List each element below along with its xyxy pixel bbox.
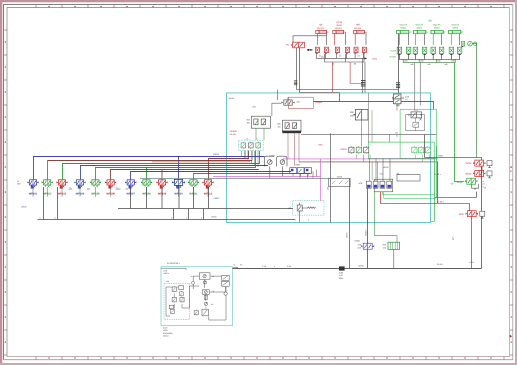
wire mid drop with connector [361,58,363,93]
frame valve group box [374,179,392,192]
svg-text:x: x [274,265,275,268]
valve V34 [241,142,246,149]
wire bus C green [63,151,260,180]
pilot assembly box [293,201,324,215]
valve V50 [366,181,371,188]
valve V40 [349,146,354,154]
wire green drops to valve box [414,63,416,111]
valve VR3 WP103 [56,180,67,187]
valve S6 [204,295,208,300]
svg-text:GB: GB [428,20,432,23]
svg-text:x 08: x 08 [339,274,343,277]
svg-text:8005: 8005 [339,277,343,280]
green outer box [400,109,436,158]
svg-text:MR: MR [356,24,360,27]
connector K3 [396,83,400,88]
valve V53 [387,181,392,188]
flow arrow [307,49,313,51]
valve V29 aux [461,41,464,47]
svg-text:W0rt: W0rt [459,213,464,216]
svg-text:x08 05: x08 05 [229,97,235,100]
valve RV1 [473,160,485,166]
valve VR8 WP108 [141,180,152,187]
wire V32 drop [361,120,363,147]
valve V39 [305,168,312,176]
svg-text:c: c [257,138,258,141]
svg-text:S p05: S p05 [390,50,396,53]
pump SP1 [199,273,210,279]
valve RV2 [473,170,485,176]
wire bus B maroon [48,159,253,161]
svg-text:W: W [17,180,19,183]
svg-text:V08: V08 [252,106,255,109]
svg-text:W0gb: W0gb [457,181,464,184]
valve S4 [180,296,184,302]
svg-text:0x80: 0x80 [339,272,343,275]
svg-text:00x0x000x: 00x0x000x [163,332,173,335]
wire cylinder drops green group [399,34,459,45]
wire cooler drop [393,249,395,268]
wire main tank line [233,267,482,269]
svg-text:W0fw: W0fw [466,162,472,165]
valve V52 [380,181,385,188]
valve V15 [354,47,358,54]
valve S11 [179,286,184,290]
svg-text:Wg1 05: Wg1 05 [399,23,407,26]
valve V22 [406,47,410,55]
valve V16 [362,47,366,54]
valve GV1 [465,178,477,184]
wire bus G blue [131,171,292,179]
svg-text:W052: W052 [416,26,422,29]
svg-text:x0805: x0805 [358,264,364,267]
border numerals [510,167,511,168]
svg-text:x0: x0 [191,275,193,278]
wire long mid bus [301,133,437,135]
wire green valve bus2 [403,59,455,62]
restrictor [420,118,422,120]
svg-text:W053: W053 [434,26,440,29]
valve S7 [194,309,198,315]
wire bus2 drop [332,62,334,92]
wire red to connector [350,62,362,84]
valve S9 [222,275,230,280]
svg-text:x0805: x0805 [383,166,389,169]
valve V33 spring [408,112,422,118]
spring coil [307,207,315,209]
svg-text:a: a [177,286,178,288]
cooler [388,242,400,249]
valve RV3 [466,211,478,217]
manifold bar [282,131,301,134]
valve V43 [412,146,417,154]
valve V51 [373,181,378,188]
valve V11 [315,47,319,54]
cylinder Z7 [449,30,463,33]
cylinder Z5 [414,30,428,33]
valve S13 [169,305,173,309]
cylinder Z2 [333,30,346,33]
wire MRV drops [357,155,371,162]
svg-text:W051: W051 [400,26,406,29]
svg-text:x00x0: x00x0 [163,334,169,337]
valve V41 [356,146,361,154]
valve V13 [335,47,339,54]
wire CV1 left link [272,103,282,116]
wire bus K pink [213,159,321,201]
valve S1 [172,286,176,292]
valve V42 [364,146,369,154]
svg-text:W 08 L: W 08 L [437,263,444,266]
cylinder Z4 [397,30,411,33]
valve VR1 WP101 [27,180,38,187]
svg-text:WP101: WP101 [29,193,38,196]
wire pilot drops to cluster [297,48,399,89]
pink pilot line upper [283,158,438,160]
pump P3 [468,41,473,46]
svg-text:MF: MF [319,24,323,27]
cylinder Z1 [316,30,329,33]
svg-text:x0805: x0805 [337,176,343,179]
valve VR2 WP102 [42,180,53,187]
wire RV3 drop [471,217,473,269]
valve S12 [224,292,227,295]
wire aux to right drop [472,44,476,158]
wire lower bus2 [118,187,293,208]
svg-text:Vfw: Vfw [286,44,290,47]
valve V27 [449,47,453,55]
svg-text:WP103: WP103 [58,193,67,196]
wire CB comb [241,151,258,168]
subschematic box [161,267,233,326]
pump P1 [268,160,273,165]
valve V14 [345,47,349,54]
pump SP3 [202,290,209,295]
svg-text:40/60: 40/60 [336,24,342,27]
wire bus H green [194,173,311,179]
wire green box drop [434,159,436,222]
connector K1 [361,81,366,86]
wire red group top manifold [293,36,326,42]
valve VR7 WP107 [125,180,136,187]
valve BLV blue [361,243,374,249]
frame aux box [397,175,420,181]
svg-text:x0800: x0800 [21,205,27,208]
valve VR11 WP111 [188,180,199,187]
valve V33b [413,122,419,127]
valve V26 [439,47,443,55]
valve V45 [425,146,430,154]
svg-text:x 0: x 0 [405,98,408,101]
wire bus I maroon [209,151,249,180]
valve V25 [431,47,435,55]
wire long drop A [349,178,351,268]
wire bus E green [96,151,256,180]
wire BLV drop [367,249,369,268]
wire valve bottoms bus1 [317,54,367,58]
connector K2 [294,81,297,85]
svg-text:0: 0 [54,216,55,219]
wire cluster right drop [330,133,332,222]
wire pilot drain [299,214,301,223]
wire red pilot to right [381,192,470,211]
svg-text:0: 0 [201,216,202,219]
pump SP2 [203,281,206,284]
svg-text:x0805: x0805 [211,216,217,219]
svg-text:V0805: V0805 [340,148,347,151]
svg-text:x0805: x0805 [346,232,349,238]
svg-text:x0805: x0805 [354,239,360,242]
cylinder Z3 [354,30,367,33]
valve VR6 WP106 [105,180,116,187]
wire feed stubs cluster [245,151,252,160]
pump P4 [474,42,477,45]
svg-text:W 08 x: W 08 x [437,201,444,204]
filter F1 [339,266,345,270]
wire center spine [367,93,369,142]
svg-text:Wg2 05: Wg2 05 [415,23,423,26]
svg-text:x08: x08 [297,100,300,103]
wire CV2 drop [396,104,398,111]
svg-text:0x: 0x [212,275,214,278]
svg-text:W054: W054 [452,26,458,29]
tank symbol [472,184,479,190]
wire bus F maroon [111,169,259,179]
valve V28 [457,47,461,55]
svg-text:AD: AD [278,125,281,128]
valve V38 [297,168,304,176]
valve V35 [248,142,253,149]
valve V44 [419,146,424,154]
valve V24 [422,47,426,55]
svg-text:b: b [116,186,117,189]
valve VR12 WP112 [202,180,213,187]
pump P2 [280,160,285,165]
svg-text:Wg3 05: Wg3 05 [433,23,441,26]
svg-text:x08: x08 [166,280,169,283]
wire CV1 feed [277,89,279,100]
wire cyan extension [431,220,435,222]
svg-text:0: 0 [171,216,172,219]
boundary main power unit box [227,93,431,223]
sheet edge strips [0,0,517,2]
row link marks [69,188,129,190]
valve V31 [393,94,401,104]
svg-text:x005 x: x005 x [164,272,170,275]
valve VW pilot [291,42,304,48]
valve S3 [172,296,176,302]
cyan pilot box [239,140,264,150]
valve VR4 WP104 [74,180,85,187]
svg-text:WP102: WP102 [43,193,52,196]
wire valve bottoms bus2 [325,54,365,62]
svg-text:0x: 0x [211,303,213,306]
wire bus A blue [34,156,265,179]
svg-text:W1201: W1201 [317,27,325,30]
svg-text:W1203: W1203 [354,27,362,30]
cylinder Z6 [431,30,445,33]
svg-text:W 050: W 050 [390,56,397,59]
wire MRV to VRG verticals [371,162,373,180]
svg-text:W 08 x: W 08 x [434,173,441,176]
green function box [368,142,434,158]
wire feed right column [425,134,482,161]
wire lower bus1 [38,187,296,219]
subschematic dashed box [164,284,190,320]
svg-text:x1: x1 [483,180,485,183]
border mark [510,335,513,338]
valve V30 [281,97,294,105]
svg-text:T0: T0 [233,263,235,266]
relief valve block RB2 [282,120,301,131]
frame V33 subbox [406,114,425,130]
wire short drops [300,170,317,179]
svg-text:0: 0 [186,216,187,219]
svg-text:WP105: WP105 [91,193,100,196]
svg-text:WP104: WP104 [76,193,85,196]
valve VR5 WP105 [90,180,101,187]
svg-text:x08: x08 [396,172,399,175]
svg-text:Vfwd: Vfwd [372,57,378,60]
svg-text:Wg4 05: Wg4 05 [451,23,459,26]
wire green laterals [382,192,435,199]
valve V32 dark [353,109,368,120]
valve VR10 WP110 [172,179,185,187]
wire RV1-RV2 link [481,166,483,171]
svg-text:E08: E08 [164,269,167,272]
gauge G1 [192,281,195,284]
valve V36 [256,142,261,149]
valve V37 [290,168,297,176]
svg-text:0x 00x00 05 x: 0x 00x00 05 x [167,262,181,265]
svg-text:W0bk: W0bk [466,173,473,176]
valve V60 [297,203,302,214]
svg-text:V0810: V0810 [214,197,221,200]
wire red main bus [313,101,433,109]
wire bus D navy [81,165,269,179]
wire green valve bus1 [399,55,459,59]
valve S8 [202,309,208,316]
svg-text:W0808: W0808 [230,130,238,133]
svg-text:V0812: V0812 [213,153,220,156]
wire green group left drop [398,34,400,94]
svg-text:W0805: W0805 [364,229,367,236]
maroon pilot long line [299,162,438,204]
svg-text:x l x: x l x [415,109,418,112]
arrow tank feed [233,267,236,268]
valve S2 [180,291,184,296]
wire VRG feeds [370,159,391,182]
svg-text:x 08 x: x 08 x [469,261,474,264]
svg-text:W1202: W1202 [335,27,343,30]
wire green long drop right [455,63,465,182]
valve VR9 WP109 [156,180,167,187]
wire right column spine [481,166,483,268]
wire bus L gray [140,177,330,179]
pilot frame red [288,97,313,108]
svg-text:P0: P0 [240,263,242,266]
svg-text:0x: 0x [396,135,398,138]
valve S10 [222,281,230,286]
svg-text:WP107: WP107 [126,193,135,196]
svg-text:AD B: AD B [336,21,342,24]
svg-text:0x: 0x [212,290,214,293]
subschematic wires [161,268,226,320]
svg-text:0: 0 [39,216,40,219]
valve V12 [324,47,328,54]
wire relief drops [256,128,264,140]
relief valve block RB1 [251,116,270,128]
pump SP4 [204,302,207,305]
wire bus J olive [152,161,250,163]
junction box JB [329,178,351,186]
valve V23 [413,47,417,55]
wire cylinder drops red group [317,32,366,45]
valve S5 [170,308,174,314]
svg-text:WP106: WP106 [106,193,115,196]
svg-text:Wx: Wx [395,132,398,135]
valve V21 [397,47,401,55]
svg-text:p8: p8 [483,183,485,186]
svg-text:AD 05: AD 05 [230,133,237,136]
wire VRG descents [367,188,369,243]
wire tank link [435,192,477,198]
